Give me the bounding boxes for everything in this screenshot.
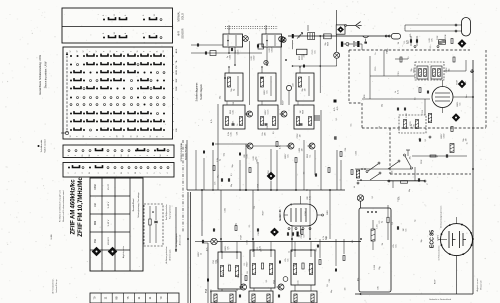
svg-text:L204: L204 bbox=[374, 265, 376, 269]
svg-text:47k: 47k bbox=[227, 246, 229, 249]
svg-text:56p: 56p bbox=[331, 290, 333, 293]
svg-text:C302: C302 bbox=[256, 159, 258, 164]
svg-text:Für Werte ohne Bezeichnung (µF: Für Werte ohne Bezeichnung (µF) und bbox=[59, 190, 62, 222]
svg-text:220: 220 bbox=[291, 203, 293, 206]
svg-text:C115: C115 bbox=[398, 71, 400, 75]
svg-text:7: 7 bbox=[98, 155, 100, 156]
svg-text:15-37: 15-37 bbox=[108, 183, 110, 189]
svg-text:8: 8 bbox=[103, 15, 105, 16]
svg-text:Gleichspannungen gemessen: Gleichspannungen gemessen bbox=[441, 206, 443, 228]
svg-text:30p: 30p bbox=[231, 184, 233, 187]
svg-text:1k: 1k bbox=[466, 142, 468, 144]
svg-text:47k: 47k bbox=[431, 38, 433, 41]
svg-text:8: 8 bbox=[128, 172, 130, 173]
svg-text:C96: C96 bbox=[236, 132, 238, 135]
svg-text:5p: 5p bbox=[465, 81, 467, 83]
svg-text:1k: 1k bbox=[375, 53, 377, 55]
svg-text:0,1: 0,1 bbox=[336, 118, 338, 121]
svg-text:0,5: 0,5 bbox=[351, 124, 353, 127]
svg-text:C115: C115 bbox=[422, 110, 424, 114]
svg-text:6: 6 bbox=[173, 121, 175, 122]
svg-text:10n: 10n bbox=[303, 171, 305, 174]
svg-text:R207: R207 bbox=[434, 280, 436, 285]
svg-text:9: 9 bbox=[173, 97, 175, 98]
svg-text:30p: 30p bbox=[220, 96, 222, 99]
svg-text:0,1: 0,1 bbox=[425, 139, 427, 142]
svg-text:16: 16 bbox=[121, 172, 123, 174]
svg-text:L204: L204 bbox=[305, 212, 307, 216]
svg-text:7: 7 bbox=[140, 155, 142, 156]
svg-text:17: 17 bbox=[96, 51, 98, 53]
svg-text:30p: 30p bbox=[326, 237, 328, 240]
svg-text:An Antennenbuchse: An Antennenbuchse bbox=[165, 247, 168, 264]
svg-text:6: 6 bbox=[147, 172, 149, 173]
svg-text:11: 11 bbox=[157, 51, 159, 53]
svg-text:EABC 80: EABC 80 bbox=[278, 209, 282, 221]
svg-text:10: 10 bbox=[114, 32, 116, 34]
svg-text:SENSOR: SENSOR bbox=[182, 28, 185, 38]
svg-text:0,1: 0,1 bbox=[231, 173, 233, 176]
svg-text:15: 15 bbox=[131, 136, 133, 138]
svg-text:1M: 1M bbox=[238, 275, 240, 278]
svg-text:12: 12 bbox=[77, 51, 79, 53]
svg-text:0,5: 0,5 bbox=[392, 222, 394, 225]
svg-text:10n: 10n bbox=[314, 50, 316, 53]
svg-text:10n: 10n bbox=[344, 287, 346, 290]
svg-text:Gezeichnete Schalterstellung:: Gezeichnete Schalterstellung: UKW bbox=[39, 54, 42, 94]
svg-text:SOLO: SOLO bbox=[182, 13, 185, 20]
svg-text:NORMAL: NORMAL bbox=[178, 11, 181, 22]
svg-text:mit Röhrenvoltmeter: mit Röhrenvoltmeter bbox=[438, 245, 441, 261]
svg-text:4,7k: 4,7k bbox=[309, 196, 311, 200]
svg-text:15: 15 bbox=[82, 155, 84, 157]
svg-text:L101: L101 bbox=[406, 113, 408, 117]
svg-text:C96: C96 bbox=[258, 232, 260, 235]
svg-text:10n: 10n bbox=[261, 249, 263, 252]
svg-text:7: 7 bbox=[140, 172, 142, 173]
svg-text:10n: 10n bbox=[214, 182, 216, 185]
svg-text:5p: 5p bbox=[307, 189, 309, 191]
svg-text:HI-FI: HI-FI bbox=[178, 31, 181, 37]
svg-text:C115: C115 bbox=[297, 280, 299, 284]
svg-text:Signal generator: Signal generator bbox=[169, 205, 172, 219]
svg-text:18: 18 bbox=[70, 136, 72, 138]
svg-text:56p: 56p bbox=[299, 35, 301, 38]
svg-text:10n: 10n bbox=[392, 170, 394, 173]
svg-text:9: 9 bbox=[143, 15, 145, 16]
svg-text:2: 2 bbox=[173, 104, 175, 105]
svg-text:R207: R207 bbox=[263, 211, 265, 216]
svg-text:30p: 30p bbox=[214, 228, 216, 231]
svg-text:ECC 85: ECC 85 bbox=[430, 230, 436, 248]
svg-text:56p: 56p bbox=[409, 189, 411, 192]
svg-text:7: 7 bbox=[110, 136, 112, 137]
svg-text:7: 7 bbox=[107, 155, 109, 156]
svg-text:5: 5 bbox=[96, 136, 98, 137]
svg-text:C302: C302 bbox=[421, 160, 423, 165]
svg-text:13: 13 bbox=[121, 155, 123, 157]
svg-text:7: 7 bbox=[90, 136, 92, 137]
svg-text:15: 15 bbox=[137, 51, 139, 53]
svg-text:8: 8 bbox=[117, 51, 119, 52]
svg-text:1k: 1k bbox=[200, 253, 202, 255]
svg-text:6: 6 bbox=[98, 172, 100, 173]
svg-text:30p: 30p bbox=[421, 239, 423, 242]
svg-text:0,5: 0,5 bbox=[408, 57, 410, 60]
svg-text:15: 15 bbox=[114, 155, 116, 157]
svg-text:C115: C115 bbox=[348, 43, 350, 47]
svg-text:47k: 47k bbox=[358, 278, 360, 281]
svg-text:R401: R401 bbox=[387, 49, 389, 54]
svg-text:43-16 V: 43-16 V bbox=[108, 237, 110, 245]
svg-text:C302: C302 bbox=[246, 240, 248, 245]
svg-text:T 2: T 2 bbox=[205, 289, 208, 293]
svg-text:2: 2 bbox=[150, 51, 152, 52]
svg-text:C302: C302 bbox=[355, 151, 357, 156]
svg-text:9: 9 bbox=[173, 64, 175, 65]
svg-text:R58: R58 bbox=[268, 170, 270, 173]
svg-text:56p: 56p bbox=[232, 164, 234, 167]
svg-text:1k: 1k bbox=[222, 272, 224, 274]
svg-text:7: 7 bbox=[90, 51, 92, 52]
svg-text:4: 4 bbox=[167, 155, 169, 156]
svg-text:An Koppelspule: An Koppelspule bbox=[175, 233, 178, 246]
svg-text:1M: 1M bbox=[254, 206, 256, 209]
svg-text:0,5: 0,5 bbox=[327, 284, 329, 287]
svg-text:C96: C96 bbox=[345, 148, 347, 151]
svg-text:56p: 56p bbox=[382, 104, 384, 107]
svg-text:C302: C302 bbox=[437, 36, 439, 41]
svg-text:2: 2 bbox=[68, 172, 70, 173]
svg-text:L204: L204 bbox=[445, 35, 447, 39]
svg-text:R207: R207 bbox=[457, 80, 459, 85]
svg-text:B230: B230 bbox=[299, 56, 301, 60]
svg-text:2: 2 bbox=[154, 33, 156, 34]
svg-text:18: 18 bbox=[117, 136, 119, 138]
svg-text:ZF/IF AM 460kHz/kc: ZF/IF AM 460kHz/kc bbox=[71, 179, 77, 235]
svg-text:10n: 10n bbox=[408, 41, 410, 44]
svg-text:5-12 V: 5-12 V bbox=[108, 201, 110, 208]
svg-text:1M: 1M bbox=[382, 242, 384, 245]
svg-text:47k: 47k bbox=[409, 156, 411, 159]
svg-text:10: 10 bbox=[83, 136, 85, 138]
svg-text:Antenna jack: Antenna jack bbox=[169, 249, 172, 260]
svg-text:10n: 10n bbox=[266, 90, 268, 93]
svg-text:220: 220 bbox=[267, 126, 269, 129]
svg-text:1M: 1M bbox=[398, 41, 400, 44]
svg-text:5-12 V: 5-12 V bbox=[108, 219, 110, 226]
svg-text:10n: 10n bbox=[287, 154, 289, 157]
svg-text:An Tonabnehmer-: An Tonabnehmer- bbox=[52, 278, 55, 293]
svg-text:R58: R58 bbox=[257, 184, 259, 187]
svg-text:Schalterdiagramm: Schalterdiagramm bbox=[196, 83, 199, 102]
svg-text:buchse Pick-up: buchse Pick-up bbox=[56, 280, 58, 293]
svg-text:Abgleichpunkte: Abgleichpunkte bbox=[122, 246, 125, 258]
svg-text:5: 5 bbox=[131, 51, 133, 52]
svg-text:4,7k: 4,7k bbox=[397, 90, 399, 94]
svg-text:4,7k: 4,7k bbox=[337, 107, 339, 111]
svg-text:1M: 1M bbox=[304, 88, 306, 91]
svg-text:Am Wellenschalter: Am Wellenschalter bbox=[165, 204, 168, 220]
svg-text:1: 1 bbox=[173, 72, 175, 73]
svg-text:10: 10 bbox=[135, 172, 137, 174]
svg-text:R207: R207 bbox=[282, 100, 284, 105]
svg-text:1M: 1M bbox=[465, 138, 467, 141]
svg-text:0,5: 0,5 bbox=[266, 280, 268, 283]
svg-text:1k: 1k bbox=[437, 155, 439, 157]
svg-text:5: 5 bbox=[154, 172, 156, 173]
svg-text:0,5: 0,5 bbox=[414, 97, 416, 100]
svg-text:R58: R58 bbox=[233, 102, 235, 105]
svg-text:5p: 5p bbox=[414, 220, 416, 222]
svg-text:12: 12 bbox=[150, 136, 152, 138]
svg-text:9: 9 bbox=[77, 136, 79, 137]
svg-text:8: 8 bbox=[173, 56, 175, 57]
svg-text:2: 2 bbox=[147, 155, 149, 156]
svg-text:13: 13 bbox=[163, 51, 165, 53]
svg-text:1M: 1M bbox=[247, 271, 249, 274]
svg-text:Switch contact: Switch contact bbox=[44, 139, 47, 153]
svg-text:7: 7 bbox=[160, 172, 162, 173]
svg-text:8: 8 bbox=[75, 155, 77, 156]
svg-text:1M: 1M bbox=[301, 148, 303, 151]
svg-text:L101: L101 bbox=[410, 121, 412, 125]
svg-text:C115: C115 bbox=[397, 197, 399, 201]
svg-text:47k: 47k bbox=[352, 240, 354, 243]
svg-text:16: 16 bbox=[89, 172, 91, 174]
svg-text:9: 9 bbox=[68, 155, 70, 156]
svg-text:56p: 56p bbox=[315, 248, 317, 251]
svg-text:6: 6 bbox=[104, 51, 106, 52]
svg-text:7: 7 bbox=[135, 155, 137, 156]
svg-text:56p: 56p bbox=[217, 175, 219, 178]
svg-text:15: 15 bbox=[128, 155, 130, 157]
svg-text:Schwingkreisspg. Osc voltage: Schwingkreisspg. Osc voltage bbox=[137, 192, 140, 217]
svg-text:6: 6 bbox=[114, 172, 116, 173]
svg-text:Abgleich nur mit: Abgleich nur mit bbox=[476, 278, 479, 291]
svg-text:7: 7 bbox=[163, 136, 165, 137]
svg-text:6: 6 bbox=[123, 51, 125, 52]
svg-text:1k: 1k bbox=[289, 251, 291, 253]
svg-text:C302: C302 bbox=[224, 208, 226, 213]
svg-text:5: 5 bbox=[75, 172, 77, 173]
svg-text:C115: C115 bbox=[375, 67, 377, 71]
svg-text:47k: 47k bbox=[410, 34, 412, 37]
svg-text:56p: 56p bbox=[236, 223, 238, 226]
svg-text:10: 10 bbox=[89, 155, 91, 157]
svg-text:ZF/IF FM 10,7MHz/Mc: ZF/IF FM 10,7MHz/Mc bbox=[78, 177, 84, 237]
svg-text:1: 1 bbox=[173, 88, 175, 89]
svg-text:220: 220 bbox=[303, 54, 305, 57]
svg-text:L101: L101 bbox=[377, 224, 379, 228]
svg-text:12: 12 bbox=[110, 51, 112, 53]
svg-text:17: 17 bbox=[83, 51, 85, 53]
svg-text:UKW: UKW bbox=[95, 183, 97, 189]
svg-text:0,1: 0,1 bbox=[419, 137, 421, 140]
svg-text:1M: 1M bbox=[379, 126, 381, 129]
svg-text:G 406: G 406 bbox=[51, 234, 53, 239]
svg-text:4,7k: 4,7k bbox=[334, 107, 336, 111]
svg-text:R401: R401 bbox=[327, 210, 329, 215]
svg-text:C96: C96 bbox=[329, 279, 331, 282]
svg-text:6: 6 bbox=[154, 155, 156, 156]
svg-text:Bezieht auf Ω unless otherwise: Bezieht auf Ω unless otherwise noted bbox=[62, 190, 65, 221]
svg-text:Antenna coil: Antenna coil bbox=[179, 234, 182, 245]
svg-text:6: 6 bbox=[173, 80, 175, 81]
svg-text:Uₕₒₒ: Uₕₒₒ bbox=[466, 94, 468, 98]
svg-text:220: 220 bbox=[295, 264, 297, 267]
svg-text:Bereich/Band: Bereich/Band bbox=[132, 198, 135, 211]
svg-text:14: 14 bbox=[160, 155, 162, 157]
svg-text:16: 16 bbox=[137, 136, 139, 138]
svg-text:3: 3 bbox=[143, 33, 145, 34]
svg-text:4,7k: 4,7k bbox=[280, 145, 282, 149]
svg-text:R58: R58 bbox=[364, 95, 366, 98]
svg-text:12: 12 bbox=[114, 14, 116, 16]
svg-text:30p: 30p bbox=[379, 267, 381, 270]
svg-text:AUS: AUS bbox=[175, 48, 178, 53]
svg-text:8: 8 bbox=[103, 33, 105, 34]
svg-text:1: 1 bbox=[107, 172, 109, 173]
svg-text:Gedruckt in Deutschland: Gedruckt in Deutschland bbox=[429, 298, 451, 301]
svg-text:6: 6 bbox=[144, 51, 146, 52]
svg-text:Schaltkontakt: Schaltkontakt bbox=[40, 139, 43, 152]
svg-text:7: 7 bbox=[173, 113, 175, 114]
svg-text:4,7k: 4,7k bbox=[217, 259, 219, 263]
svg-text:220: 220 bbox=[292, 83, 294, 86]
svg-text:4,7k: 4,7k bbox=[211, 119, 213, 123]
svg-text:4: 4 bbox=[167, 172, 169, 173]
svg-text:Switch diagram: Switch diagram bbox=[200, 84, 203, 100]
svg-text:17: 17 bbox=[70, 51, 72, 53]
svg-text:4: 4 bbox=[125, 33, 127, 34]
svg-text:12: 12 bbox=[123, 136, 125, 138]
svg-text:1: 1 bbox=[173, 130, 175, 131]
svg-text:R58: R58 bbox=[274, 280, 276, 283]
svg-text:1M: 1M bbox=[299, 134, 301, 137]
svg-text:Messsender: Messsender bbox=[481, 280, 483, 290]
svg-text:0,5: 0,5 bbox=[430, 46, 432, 49]
svg-text:1k: 1k bbox=[237, 124, 239, 126]
svg-text:R207: R207 bbox=[240, 235, 242, 240]
svg-text:11: 11 bbox=[157, 136, 159, 138]
svg-text:L101: L101 bbox=[233, 121, 235, 125]
svg-text:1M: 1M bbox=[299, 234, 301, 237]
svg-text:Shown in position: UKW: Shown in position: UKW bbox=[45, 61, 48, 88]
svg-text:0,1: 0,1 bbox=[249, 225, 251, 228]
svg-text:10n: 10n bbox=[395, 244, 397, 247]
svg-text:V 871: V 871 bbox=[438, 234, 440, 240]
svg-text:0,1: 0,1 bbox=[372, 196, 374, 199]
svg-text:PH: PH bbox=[176, 65, 178, 68]
svg-text:STEREO NORMAL: STEREO NORMAL bbox=[180, 142, 183, 162]
svg-text:3: 3 bbox=[82, 172, 84, 173]
svg-text:56p: 56p bbox=[223, 153, 225, 156]
svg-text:5: 5 bbox=[144, 136, 146, 137]
svg-text:4,7k: 4,7k bbox=[207, 248, 209, 252]
svg-text:C115: C115 bbox=[324, 34, 326, 38]
svg-text:10: 10 bbox=[154, 14, 156, 16]
svg-text:6: 6 bbox=[125, 15, 127, 16]
svg-text:2: 2 bbox=[104, 136, 106, 137]
svg-text:C96: C96 bbox=[378, 286, 380, 289]
svg-text:0,5: 0,5 bbox=[273, 131, 275, 134]
